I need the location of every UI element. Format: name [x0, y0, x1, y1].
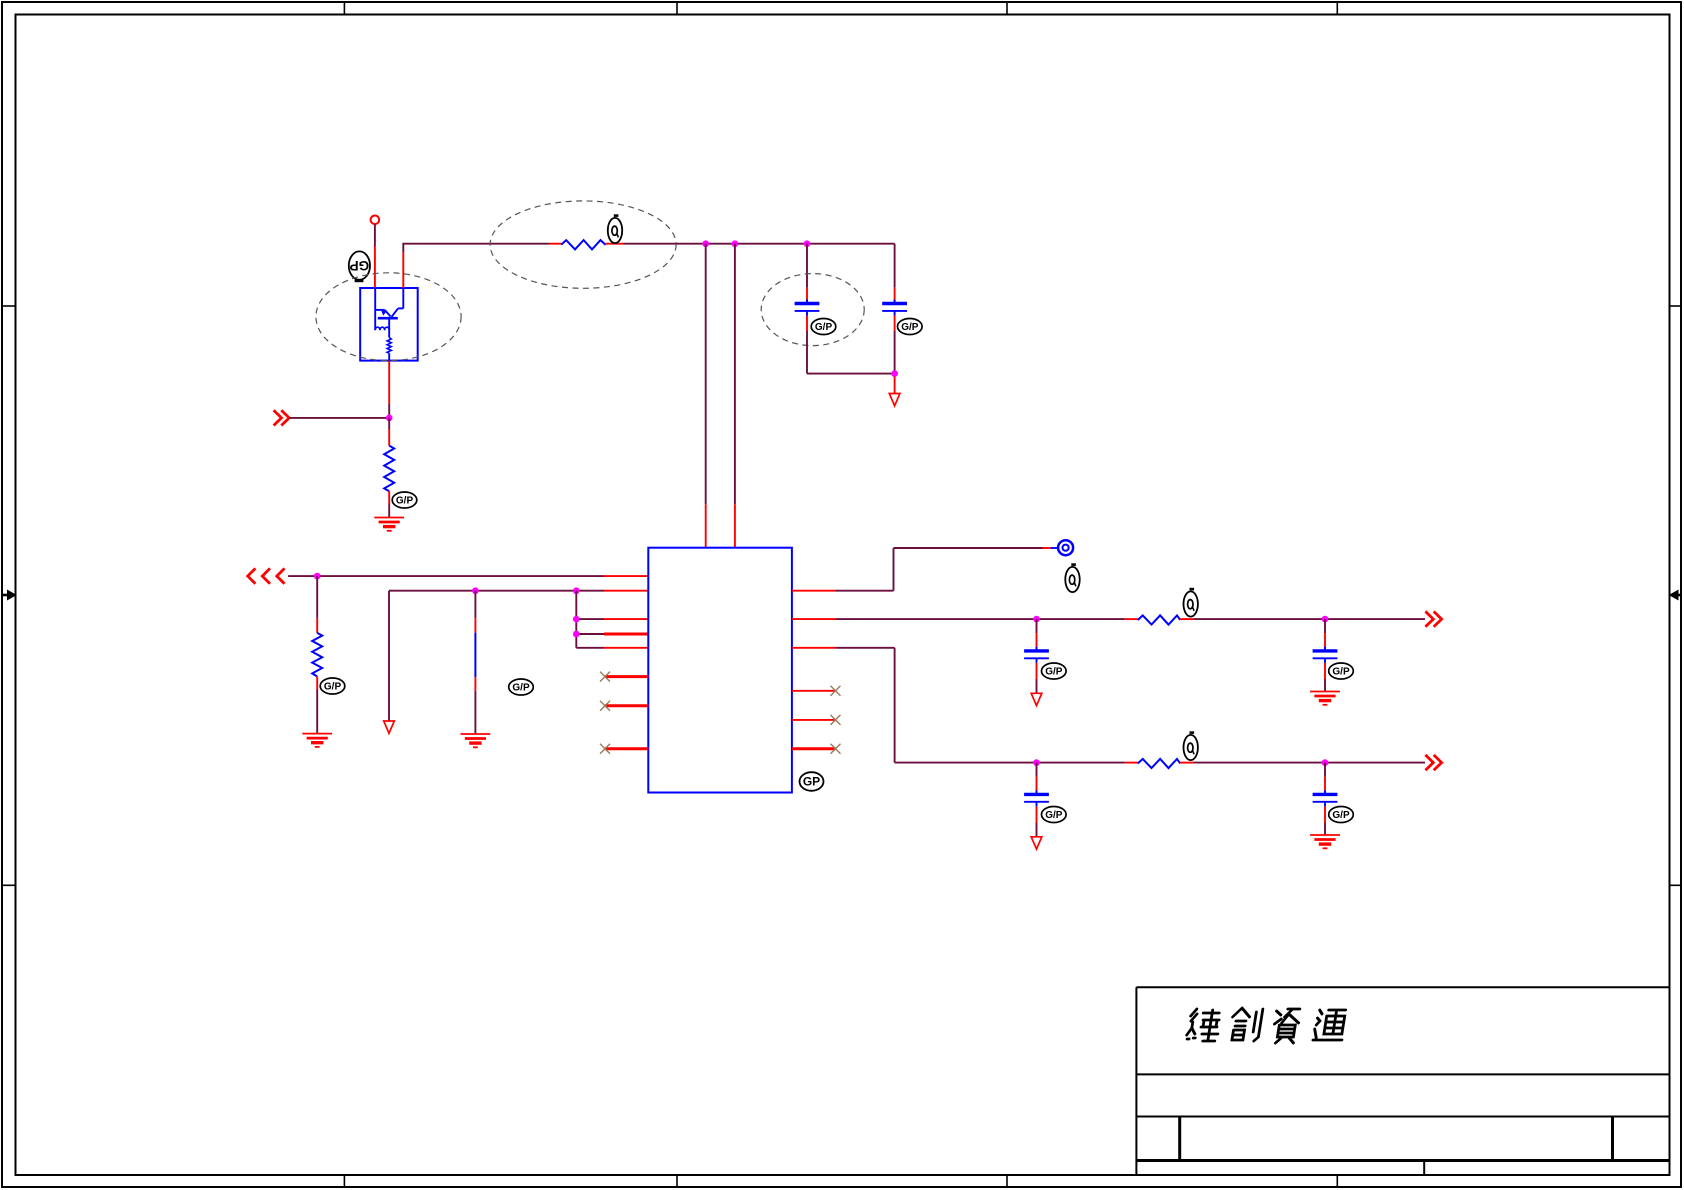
dashed highlight ellipse around R1: [490, 201, 676, 288]
ground symbol R3: [302, 734, 332, 747]
junction node row1 b: [1322, 616, 1329, 623]
capacitor C2: [882, 244, 907, 331]
test point TP1: [1058, 540, 1073, 555]
capacitor C6: [1313, 763, 1338, 835]
wire Q1 collector to bus: [402, 243, 404, 288]
dashed highlight ellipse around C1: [761, 274, 864, 346]
ground (open arrow) for C1 C2: [889, 394, 900, 406]
capacitor C3: [1024, 619, 1049, 693]
ground (open arrow) net2: [384, 721, 395, 733]
label GP (rotated 180) for Q1: [349, 251, 370, 282]
no-connect pin U1 right 3: [792, 744, 841, 754]
wire net row1: [792, 618, 1125, 620]
junction node R3: [314, 573, 321, 580]
no-connect pin U1 right 2: [792, 715, 841, 725]
ground symbol R2: [374, 518, 404, 531]
label (0) for R5: [1184, 731, 1198, 760]
capacitor C1: [795, 244, 820, 331]
label G/P for C5: [1042, 807, 1067, 823]
wire C2 bottom to gnd junction: [894, 331, 896, 374]
junction node row1 a: [1033, 616, 1040, 623]
label GP for U1: [800, 772, 824, 791]
ground (open arrow) C3: [1031, 693, 1042, 705]
wire bus to U1 top pin 2: [734, 244, 736, 548]
label (0) for R1: [608, 214, 622, 243]
junction node pins b: [573, 631, 580, 638]
output port chevron row1: [1425, 611, 1441, 626]
wire port to U1 pin 1: [288, 575, 648, 577]
label G/P for C3: [1042, 663, 1067, 679]
dashed highlight ellipse around Q1: [316, 273, 461, 361]
junction node net2 b: [573, 587, 580, 594]
IC U1: [648, 548, 792, 793]
resistor R5: [1125, 759, 1193, 768]
junction node net2 a: [472, 587, 479, 594]
no-connect pin U1 left 2: [600, 701, 648, 711]
ground symbol C4: [1310, 692, 1340, 705]
wire bus to U1 top pin 1: [705, 244, 707, 548]
wire P1 to Q1 emitter: [374, 224, 376, 288]
junction node caps gnd: [891, 370, 898, 377]
capacitor C5: [1024, 763, 1049, 837]
TITLE BLOCK: [1136, 987, 1668, 1175]
wire net2 horizontal: [389, 591, 648, 721]
resistor R4: [1125, 615, 1193, 624]
junction node on bus 2: [732, 240, 739, 247]
resistor R3: [312, 576, 322, 734]
wire row1 right: [1193, 618, 1425, 620]
label G/P for C2: [898, 319, 923, 335]
wire C1 bottom to gnd junction: [807, 331, 895, 374]
capacitor C4: [1313, 619, 1338, 691]
label G/P for C4: [1329, 663, 1354, 679]
wire port to base node: [289, 417, 389, 419]
junction node on bus 3: [804, 240, 811, 247]
label (0) for R4: [1184, 588, 1198, 617]
wire net row2: [792, 648, 1125, 763]
resistor R2: [384, 446, 394, 505]
wire R2 to ground: [388, 505, 390, 518]
wire Q1 base down: [388, 361, 390, 418]
junction node row2 a: [1033, 759, 1040, 766]
junction node base: [386, 415, 393, 422]
wire junction to gnd arrow: [894, 377, 896, 394]
wire row2 right: [1193, 762, 1425, 764]
ground symbol C6: [1310, 835, 1340, 848]
label G/P for C6: [1329, 807, 1354, 823]
resistor R1 (series in bus): [549, 240, 623, 249]
junction node row2 b: [1322, 759, 1329, 766]
transistor Q1 (digital transistor in box): [360, 288, 418, 361]
wire bus left segment: [403, 243, 549, 245]
no-connect pin U1 left 1: [600, 672, 648, 682]
wire net2 vertical to pins: [576, 591, 648, 648]
jumper L1: [474, 591, 476, 734]
svg-text:GP: GP: [350, 258, 370, 273]
label G/P for R2: [392, 492, 417, 508]
no-connect pin U1 left 3: [600, 744, 648, 754]
ground (open arrow) C5: [1031, 837, 1042, 849]
label G/P for C1: [811, 319, 836, 335]
wire bus right segment: [623, 243, 895, 245]
no-connect pin U1 right 1: [792, 686, 841, 696]
port chevron <<<: [248, 568, 285, 583]
junction node on bus 1: [702, 240, 709, 247]
label (V) for TP1: [1065, 563, 1079, 592]
ground symbol L1: [461, 734, 491, 747]
wire U1 to test point: [792, 548, 1058, 591]
power connector P1: [371, 216, 380, 225]
label G/P for R3: [320, 678, 345, 694]
junction node pins a: [573, 616, 580, 623]
output port chevron row2: [1425, 755, 1441, 770]
input port chevron >>: [274, 410, 290, 425]
svg-text:GP: GP: [803, 775, 820, 789]
label G/P for L1: [509, 679, 534, 695]
wire base node down to R2: [388, 418, 390, 446]
